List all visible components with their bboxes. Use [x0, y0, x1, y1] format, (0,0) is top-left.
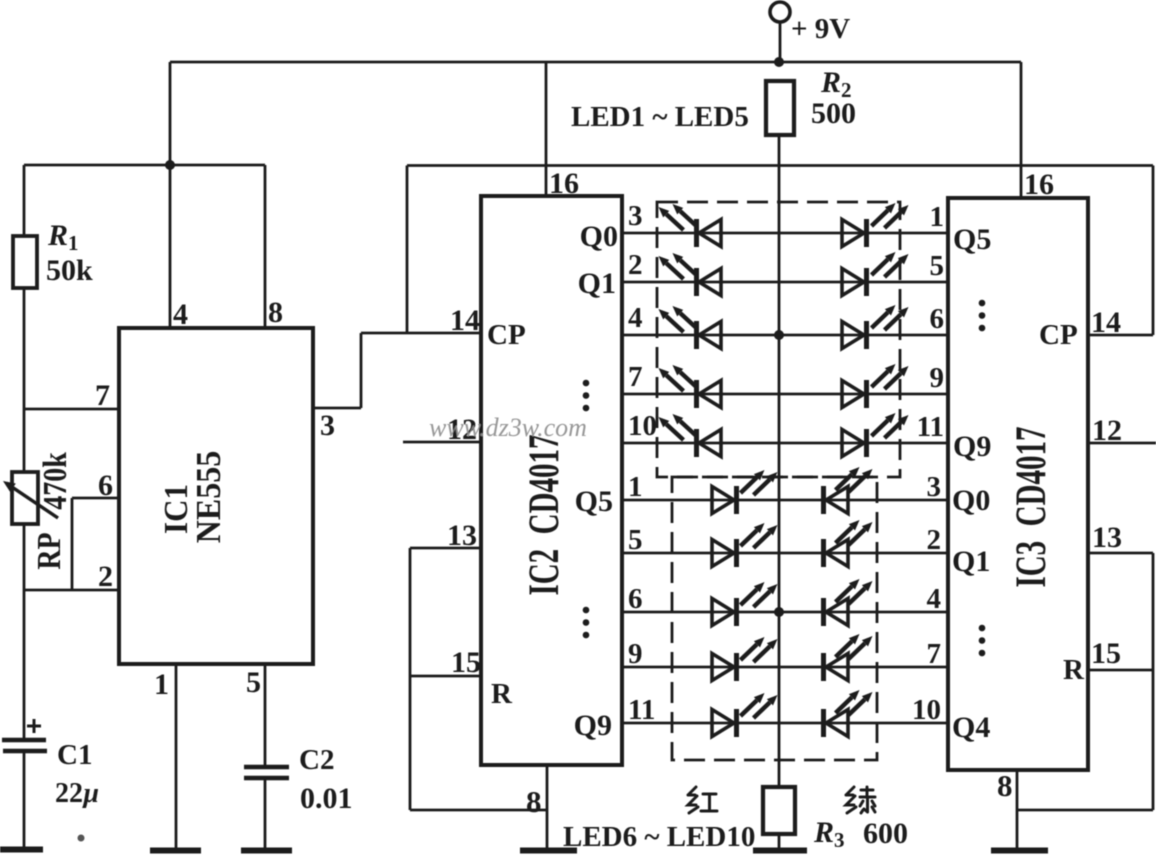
LED2 green — [864, 268, 869, 296]
wire center bus — [778, 135, 781, 787]
ellipsis IC2 upper — [583, 380, 590, 387]
svg-text:R: R — [1063, 654, 1085, 686]
ground under IC3 pin 8 — [991, 848, 1048, 854]
wire IC2 pin 13 — [410, 547, 481, 550]
svg-text:13: 13 — [1092, 521, 1122, 554]
wire pin6 to pin2 link — [71, 498, 74, 590]
wire IC3 pin 15 — [1088, 669, 1153, 672]
svg-text:8: 8 — [526, 784, 542, 819]
wire IC3 pin 8 to ground — [1016, 770, 1019, 849]
wire C2 to ground — [264, 778, 267, 849]
ellipsis IC3 upper — [979, 300, 986, 307]
svg-text:1: 1 — [154, 668, 169, 701]
svg-text:14: 14 — [1091, 306, 1121, 339]
wire left branch down to R1 — [23, 165, 26, 236]
wire C1 to ground — [23, 751, 26, 849]
wire pin 6 — [72, 497, 119, 500]
LED10 red — [734, 709, 739, 737]
svg-text:Q1: Q1 — [952, 545, 990, 578]
LED6 red — [734, 486, 739, 514]
svg-text:www.dz3w.com: www.dz3w.com — [429, 413, 587, 442]
svg-text:CP: CP — [1039, 319, 1078, 351]
wire CP rail drop right — [1152, 166, 1155, 336]
dashed box LED group top — [657, 202, 900, 477]
wire pin 2 — [24, 589, 119, 592]
op-amp U1 IC1 NE555 box — [119, 328, 313, 664]
LED7 green — [821, 539, 826, 567]
LED4 red — [694, 380, 699, 408]
svg-text:6: 6 — [98, 469, 113, 502]
ground under IC2 pin 8 — [520, 848, 577, 854]
svg-text:13: 13 — [447, 519, 477, 552]
svg-text:4: 4 — [173, 298, 188, 331]
svg-text:9: 9 — [930, 362, 945, 394]
svg-text:11: 11 — [628, 694, 655, 726]
junction dot bus bottom group — [774, 607, 784, 617]
RP wiper arrow — [13, 488, 58, 518]
svg-text:470k: 470k — [36, 452, 74, 510]
svg-text:C1: C1 — [57, 739, 92, 771]
svg-text:Q0: Q0 — [580, 220, 618, 253]
svg-text:3: 3 — [927, 471, 942, 503]
svg-text:5: 5 — [930, 250, 945, 282]
svg-text:11: 11 — [917, 411, 944, 443]
wire IC2 reset down — [409, 548, 412, 810]
svg-text:8: 8 — [997, 768, 1013, 803]
svg-text:6: 6 — [628, 583, 643, 615]
LED9 red — [734, 653, 739, 681]
svg-text:Q9: Q9 — [574, 709, 612, 742]
LED1 green — [864, 219, 869, 247]
LED5 red — [694, 429, 699, 457]
svg-text:2: 2 — [927, 524, 942, 556]
wire LED row 4 — [622, 393, 948, 396]
wire LED row 5 — [622, 442, 948, 445]
LED4 green — [864, 380, 869, 408]
wire IC2 pin 16 vertical — [545, 62, 548, 196]
LED9 green — [821, 653, 826, 681]
wire IC3 pin 12 stub — [1088, 442, 1156, 445]
svg-text:6: 6 — [930, 303, 945, 335]
svg-text:22µ: 22µ — [55, 778, 99, 809]
svg-text:10: 10 — [912, 694, 941, 726]
svg-text:1: 1 — [930, 201, 945, 233]
svg-text:R: R — [491, 678, 513, 710]
ground under pin 1 — [150, 848, 201, 854]
wire IC3 pin 16 vertical — [1020, 62, 1023, 198]
wire LED row 7 — [622, 552, 948, 555]
svg-text:4: 4 — [927, 583, 942, 615]
svg-text:NE555: NE555 — [190, 451, 229, 543]
svg-text:8: 8 — [268, 296, 283, 329]
wire IC2 pin 15 — [410, 675, 481, 678]
wire pin 4 vertical — [169, 165, 172, 328]
label lu (green) — [846, 787, 875, 813]
wire pin 5 down — [264, 664, 267, 766]
svg-text:16: 16 — [1024, 168, 1054, 201]
wire pin 8 vertical — [264, 165, 267, 328]
svg-text:IC2 CD4017: IC2 CD4017 — [519, 434, 567, 595]
junction node above pin 4 — [165, 160, 175, 170]
wire top +9V rail — [170, 61, 1021, 64]
wire CP tee up — [406, 166, 409, 334]
svg-text:5: 5 — [628, 524, 643, 556]
LED5 green — [864, 429, 869, 457]
LED1 red — [694, 219, 699, 247]
wire from +9V terminal to top rail — [779, 22, 782, 62]
LED7 red — [734, 539, 739, 567]
wire R1 to RP — [23, 288, 26, 472]
counter U3 IC3 CD4017 box — [948, 198, 1088, 770]
wire LED row 6 — [622, 499, 948, 502]
svg-text:Q4: Q4 — [952, 711, 990, 744]
dashed box LED group bottom — [672, 477, 877, 760]
svg-text:LED6 ~ LED10: LED6 ~ LED10 — [563, 821, 755, 853]
wire left drop from rail to R1 node — [169, 62, 172, 165]
svg-text:2: 2 — [98, 560, 113, 593]
stray dot mark — [78, 835, 85, 842]
LED3 red — [694, 321, 699, 349]
svg-text:5: 5 — [246, 666, 261, 699]
svg-text:9: 9 — [628, 638, 643, 670]
svg-text:14: 14 — [450, 304, 480, 337]
svg-text:7: 7 — [628, 361, 643, 393]
svg-text:2: 2 — [628, 249, 643, 281]
wire LED row 10 — [622, 722, 948, 725]
wire pin 1 to ground — [175, 664, 178, 849]
resistor R2 — [766, 81, 794, 135]
svg-text:Q9: Q9 — [953, 430, 991, 463]
resistor R1 — [13, 236, 37, 288]
capacitor C1 plus sign — [27, 719, 41, 733]
svg-text:50k: 50k — [46, 254, 93, 287]
wire CP rail to IC3 — [407, 164, 1153, 167]
wire node to left branch — [24, 164, 265, 167]
wire R3 to ground — [778, 834, 781, 849]
svg-text:CP: CP — [487, 319, 526, 351]
wire pin 3 up — [360, 333, 363, 408]
ellipsis IC3 lower — [979, 625, 986, 632]
svg-text:600: 600 — [863, 817, 908, 850]
svg-text:C2: C2 — [299, 744, 334, 776]
svg-text:12: 12 — [1092, 414, 1122, 447]
wire IC2 pin 8 to ground — [546, 765, 549, 849]
label hong (red) — [688, 787, 717, 813]
capacitor C1 — [2, 738, 46, 743]
wire LED row 9 — [622, 666, 948, 669]
capacitor C2 — [244, 765, 289, 770]
svg-text:Q5: Q5 — [953, 223, 991, 256]
svg-text:3: 3 — [320, 409, 335, 442]
LED3 green — [864, 321, 869, 349]
LED8 red — [734, 598, 739, 626]
wire pin3 to CP of IC2 — [361, 332, 481, 335]
svg-text:IC3 CD4017: IC3 CD4017 — [1006, 426, 1054, 587]
svg-text:Q1: Q1 — [578, 267, 616, 300]
ground under C1 — [0, 847, 43, 853]
wire pin 3 out — [313, 407, 361, 410]
svg-text:3: 3 — [628, 200, 643, 232]
wire IC3 pin 13 — [1088, 552, 1153, 555]
wire IC2 reset to ground stem — [410, 809, 547, 812]
wire IC3 reset drop — [1152, 553, 1155, 810]
svg-text:7: 7 — [927, 638, 942, 670]
wire LED row 3 — [622, 334, 948, 337]
potentiometer RP — [12, 472, 38, 524]
junction dot bus top group — [774, 330, 784, 340]
svg-text:500: 500 — [811, 97, 856, 130]
+9V supply terminal — [770, 2, 790, 22]
ellipsis IC2 lower — [583, 607, 590, 614]
svg-text:LED1 ~ LED5: LED1 ~ LED5 — [571, 101, 749, 133]
wire pin 7 — [24, 408, 119, 411]
LED6 green — [821, 486, 826, 514]
svg-text:+ 9V: + 9V — [791, 13, 850, 45]
svg-text:Q5: Q5 — [575, 485, 613, 518]
svg-text:4: 4 — [628, 302, 643, 334]
svg-text:RP: RP — [30, 532, 68, 569]
LED2 red — [694, 268, 699, 296]
wire LED row 1 — [622, 232, 948, 235]
svg-text:16: 16 — [549, 167, 579, 200]
svg-text:7: 7 — [95, 379, 110, 412]
svg-text:10: 10 — [628, 410, 657, 442]
wire IC2 pin 12 stub — [403, 441, 481, 444]
ground under R3 — [753, 848, 807, 854]
svg-text:0.01: 0.01 — [300, 782, 353, 815]
svg-text:Q0: Q0 — [952, 484, 990, 517]
svg-text:15: 15 — [451, 646, 481, 679]
resistor R3 — [763, 787, 795, 834]
wire CP into IC3 pin 14 — [1088, 334, 1153, 337]
wire RP to C1 — [23, 524, 26, 738]
svg-text:1: 1 — [628, 471, 643, 503]
wire LED row 8 — [622, 611, 948, 614]
LED10 green — [821, 709, 826, 737]
svg-text:15: 15 — [1091, 637, 1121, 670]
junction dot at +9V rail — [774, 57, 784, 67]
LED8 green — [821, 598, 826, 626]
ground under C2 — [241, 848, 292, 854]
wire IC3 reset to ground stem — [1017, 809, 1153, 812]
wire LED row 2 — [622, 281, 948, 284]
counter U2 IC2 CD4017 box — [481, 196, 622, 765]
